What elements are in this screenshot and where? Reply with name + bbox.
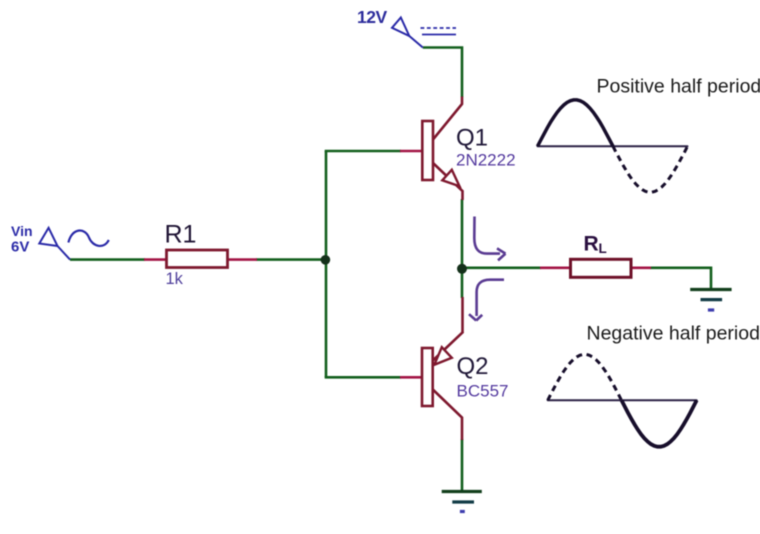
svg-text:Positive half period: Positive half period (597, 76, 760, 98)
svg-text:Negative half period: Negative half period (587, 323, 760, 345)
svg-text:BC557: BC557 (457, 381, 509, 400)
svg-text:R1: R1 (165, 221, 197, 249)
svg-text:12V: 12V (357, 7, 387, 27)
svg-text:Q1: Q1 (456, 124, 488, 151)
svg-text:Vin: Vin (11, 223, 33, 239)
svg-text:1k: 1k (166, 270, 184, 288)
svg-text:6V: 6V (11, 239, 29, 256)
svg-text:2N2222: 2N2222 (456, 150, 516, 169)
svg-text:L: L (599, 241, 607, 256)
svg-text:Q2: Q2 (457, 353, 489, 380)
svg-text:R: R (584, 232, 599, 255)
